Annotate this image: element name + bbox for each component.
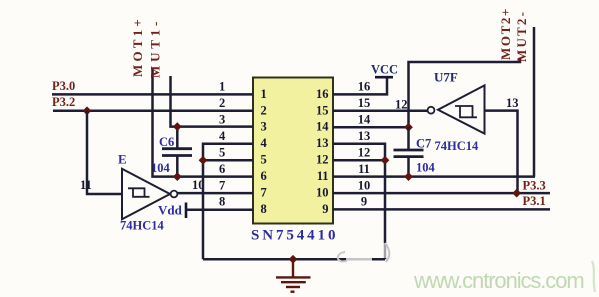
power Vdd bar	[185, 203, 188, 219]
wire MOT1+ vertical down to pin 6 wire	[153, 69, 254, 177]
svg-text:7: 7	[261, 186, 267, 200]
svg-text:5: 5	[219, 146, 225, 160]
svg-text:11: 11	[317, 169, 329, 183]
svg-text:SN754410: SN754410	[251, 228, 338, 244]
svg-text:16: 16	[358, 80, 371, 94]
capacitor C6	[162, 127, 192, 177]
wire pin 14 to MOT2+	[333, 126, 409, 129]
svg-text:74HC14: 74HC14	[120, 219, 165, 233]
hysteresis glyph	[128, 188, 150, 197]
svg-text:12: 12	[358, 146, 371, 160]
wire Vdd to pin 8	[186, 208, 253, 211]
wire pin 9 to P3.1	[333, 208, 550, 211]
svg-text:www.cntronics.com: www.cntronics.com	[413, 268, 584, 293]
svg-text:15: 15	[316, 103, 329, 117]
svg-text:9: 9	[361, 195, 367, 209]
wire pin 16 to VCC	[333, 77, 387, 94]
svg-text:10: 10	[316, 186, 329, 200]
svg-text:MOT1+: MOT1+	[130, 16, 145, 77]
svg-text:12: 12	[316, 153, 329, 167]
svg-text:C6: C6	[159, 135, 174, 149]
op-amp/inverter E 74HC14 triangle	[122, 169, 177, 219]
svg-text:13: 13	[506, 96, 519, 110]
junction ground stem	[289, 255, 298, 264]
svg-text:6: 6	[261, 169, 267, 183]
faint curve mark left	[338, 252, 347, 262]
svg-text:16: 16	[316, 87, 329, 101]
svg-text:74HC14: 74HC14	[435, 139, 480, 153]
svg-text:10: 10	[358, 178, 371, 192]
output bubble of E	[171, 191, 178, 198]
junction pin14 / C7 / riser	[404, 123, 413, 132]
capacitor C7	[394, 127, 424, 176]
svg-text:13: 13	[316, 136, 329, 150]
wire MUT2- vertical down to pin 11 wire end	[533, 27, 536, 177]
ground symbol	[276, 259, 311, 291]
wire MOT2+ riser and top run	[409, 58, 521, 128]
svg-text:9: 9	[322, 202, 328, 216]
svg-text:2: 2	[261, 103, 267, 117]
hysteresis glyph U7F	[455, 106, 477, 117]
svg-text:MUT2-: MUT2-	[514, 10, 529, 62]
faded watermark patch over ground rail	[346, 253, 372, 262]
svg-text:3: 3	[261, 120, 267, 134]
wire P3.2 to pin 2	[53, 110, 253, 113]
svg-text:14: 14	[358, 113, 371, 127]
wire pin 10 to P3.3	[333, 192, 550, 195]
svg-text:8: 8	[219, 195, 225, 209]
svg-text:13: 13	[358, 129, 371, 143]
wire P3.2 junction down to inverter E input	[87, 111, 122, 194]
svg-text:3: 3	[219, 113, 225, 127]
svg-text:7: 7	[219, 178, 225, 192]
svg-text:1: 1	[261, 87, 267, 101]
wire E output to pin 7	[177, 192, 253, 195]
junction C6 top on pin3 wire	[173, 122, 182, 131]
svg-text:4: 4	[261, 136, 268, 150]
IC U SN754410 body	[253, 78, 333, 224]
svg-text:MOT2+: MOT2+	[498, 7, 513, 60]
svg-text:P3.3: P3.3	[523, 178, 546, 192]
wire U7F input down to P3.3 junction	[485, 111, 518, 194]
wire pin 11 to MUT2-	[333, 175, 535, 178]
svg-text:P3.1: P3.1	[523, 194, 546, 208]
inverter U7F (points left)	[428, 85, 485, 133]
svg-text:P3.2: P3.2	[52, 95, 75, 109]
wire P3.0 to pin 1	[52, 93, 253, 96]
svg-text:Vdd: Vdd	[158, 203, 183, 218]
junction pin5 on ground drop	[199, 156, 208, 165]
faint green curl bottom right	[592, 261, 595, 292]
svg-text:C7: C7	[416, 137, 431, 151]
svg-text:8: 8	[261, 202, 267, 216]
wire ground rail bottom	[203, 258, 385, 261]
junction pin12 on ground drop	[381, 156, 390, 165]
svg-text:11: 11	[358, 162, 370, 176]
faint curve mark right hook	[385, 243, 389, 262]
svg-text:4: 4	[219, 129, 226, 143]
junction C7 bottom on pin11 wire	[404, 172, 413, 181]
svg-text:U7F: U7F	[434, 70, 458, 85]
svg-text:104: 104	[151, 161, 171, 175]
svg-text:5: 5	[261, 153, 267, 167]
wire MUT1- vertical down to pin 3 wire	[171, 76, 254, 127]
svg-text:1: 1	[219, 80, 225, 94]
svg-text:2: 2	[219, 96, 225, 110]
wire pin 15 to U7F output bubble	[333, 110, 427, 113]
wire pin 13 corner to ground rail	[333, 144, 385, 260]
power VCC bar	[375, 76, 393, 79]
svg-text:104: 104	[416, 161, 436, 175]
svg-text:VCC: VCC	[371, 63, 398, 77]
svg-text:E: E	[118, 152, 127, 167]
svg-text:12: 12	[395, 98, 408, 112]
svg-text:11: 11	[80, 178, 92, 192]
wire pin 5 stub	[203, 159, 253, 162]
svg-text:P3.0: P3.0	[52, 79, 75, 93]
junction on P3.2 wire	[83, 106, 92, 115]
junction P3.3 / U7F input	[512, 189, 521, 198]
wire pin 12 stub	[333, 159, 385, 162]
svg-text:15: 15	[358, 96, 371, 110]
svg-text:MUT1-: MUT1-	[148, 18, 163, 78]
svg-text:6: 6	[219, 162, 225, 176]
junction C6 bottom on pin6 wire	[173, 172, 182, 181]
svg-text:14: 14	[316, 120, 329, 134]
output bubble of U7F	[428, 107, 435, 114]
wire pin 4 corner to ground rail	[203, 144, 253, 260]
